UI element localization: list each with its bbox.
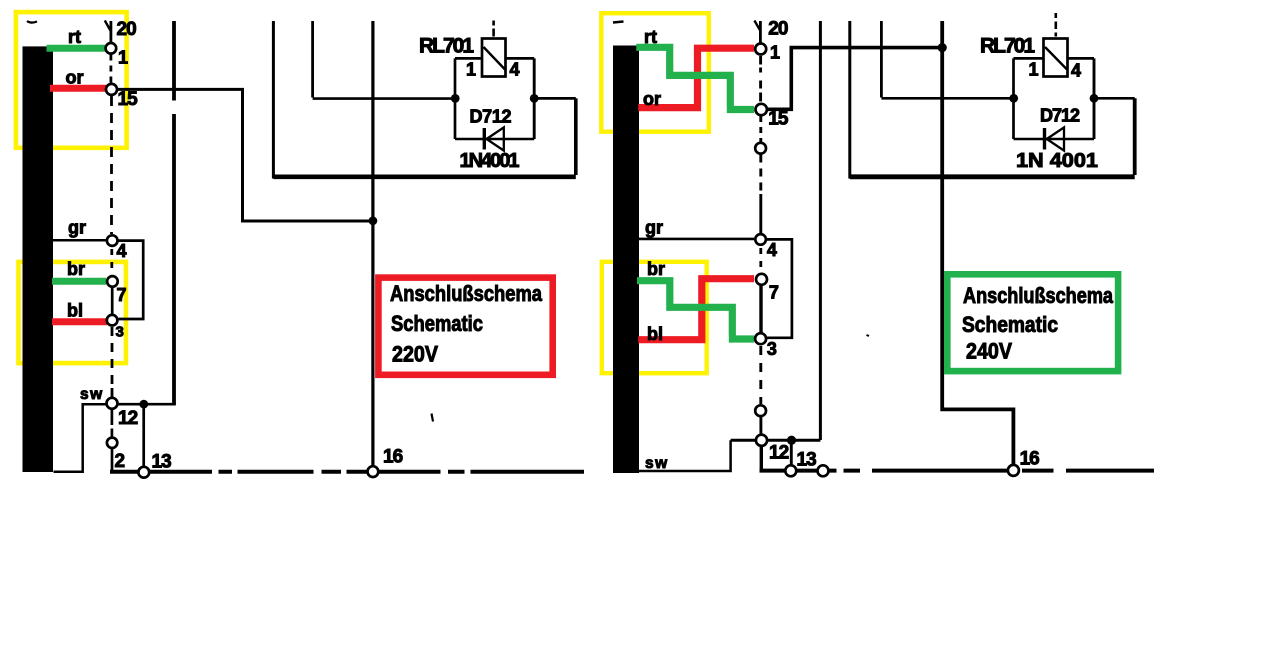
svg-text:16: 16 bbox=[383, 447, 403, 468]
svg-text:13: 13 bbox=[797, 450, 817, 471]
junction dot right of node12 bbox=[139, 400, 148, 409]
relay dashed stub above (right) bbox=[1055, 13, 1058, 37]
wire node12 down to node2 bbox=[111, 410, 114, 438]
junction dot right of node12 (right) bbox=[787, 436, 796, 445]
junction dot on vertical bus bbox=[369, 216, 378, 225]
wire node2 down to bus bbox=[111, 449, 114, 472]
svg-text:gr: gr bbox=[645, 218, 663, 238]
relay left leg (right) bbox=[1012, 58, 1015, 139]
wire: vertical from top x881 bbox=[880, 21, 883, 98]
relay right leg bbox=[533, 58, 536, 139]
bottom bus dashed line (left half) bbox=[110, 470, 584, 474]
extra terminal circle on bus bbox=[818, 465, 829, 476]
svg-text:1: 1 bbox=[118, 48, 128, 68]
relay bottom rail through diode bbox=[455, 138, 534, 140]
wire from node15 up and right to junction bbox=[767, 48, 942, 110]
red crossover wire or->1 bbox=[638, 48, 754, 107]
svg-text:or: or bbox=[66, 68, 84, 88]
svg-text:1N4001: 1N4001 bbox=[460, 150, 520, 172]
wire node12 down to bus bbox=[760, 446, 763, 470]
svg-text:Anschlußschema: Anschlußschema bbox=[963, 283, 1114, 308]
node 4 bbox=[107, 235, 118, 246]
svg-text:4: 4 bbox=[1071, 61, 1081, 81]
green wire rt bbox=[47, 45, 107, 52]
dashed vertical circle to node4 bbox=[759, 155, 762, 197]
svg-text:D712: D712 bbox=[470, 107, 512, 127]
svg-text:7: 7 bbox=[117, 285, 127, 305]
node 16 (right) bbox=[1008, 465, 1019, 476]
svg-text:1N 4001: 1N 4001 bbox=[1016, 150, 1098, 172]
diode D712 cathode bar (right) bbox=[1043, 128, 1046, 150]
wire relay right dot to x576 bbox=[534, 97, 576, 100]
node 13 (right) bbox=[785, 465, 796, 476]
svg-text:rt: rt bbox=[644, 27, 657, 47]
wire: vertical from top x820 bbox=[819, 21, 822, 440]
wire relay right dot to x1135 bbox=[1094, 97, 1135, 100]
diode D712 cathode bar bbox=[483, 128, 486, 150]
sw wire from bar bbox=[54, 404, 106, 472]
gr wire bbox=[53, 239, 106, 242]
thick return wire y177 (right) bbox=[850, 174, 1135, 179]
junction dot on vertical x941 bbox=[938, 43, 947, 52]
svg-text:1: 1 bbox=[770, 43, 780, 63]
svg-text:4: 4 bbox=[117, 241, 127, 261]
relay left leg bbox=[454, 58, 457, 139]
node 1 (right) bbox=[755, 44, 766, 55]
scan tick (top-left of right yellow box) bbox=[613, 22, 624, 23]
wire: relay feed y98.6 bbox=[313, 97, 455, 100]
thick return wire y177 bbox=[273, 175, 575, 180]
wire: vertical from top x941 then jog to node16 bbox=[942, 21, 1013, 466]
relay dashed stub above bbox=[492, 21, 495, 37]
relay top rails bbox=[455, 57, 534, 60]
dashed vertical node3 to node12 bbox=[111, 327, 114, 390]
red wire or bbox=[50, 85, 106, 92]
svg-text:13: 13 bbox=[152, 452, 172, 473]
relay coil box (left) bbox=[482, 39, 506, 77]
svg-text:240V: 240V bbox=[966, 339, 1012, 364]
node 7 bbox=[107, 276, 118, 287]
wire into node12 bbox=[111, 388, 114, 397]
green crossover wire rt->15 bbox=[636, 47, 754, 109]
relay bottom rail through diode (right) bbox=[1014, 138, 1095, 140]
yellow highlight box (left connector rt/or) bbox=[16, 12, 127, 148]
junction dot relay left bbox=[451, 94, 460, 103]
bracket wire node4 to node3 bbox=[118, 241, 143, 319]
wire y440 through node12 to x820 bbox=[731, 439, 821, 442]
diode D712 triangle (right) bbox=[1047, 127, 1064, 150]
svg-text:220V: 220V bbox=[392, 342, 438, 367]
node 16 bbox=[368, 466, 379, 477]
green schematic label box 240V bbox=[947, 274, 1118, 371]
svg-text:sw: sw bbox=[645, 455, 669, 472]
node 3 bbox=[107, 315, 118, 326]
sw wire from bar (right) bbox=[639, 440, 731, 471]
svg-text:rt: rt bbox=[68, 27, 81, 47]
wire: vertical from top x174 bbox=[172, 21, 176, 405]
svg-text:1: 1 bbox=[466, 60, 476, 80]
junction dot relay right bbox=[530, 94, 539, 103]
bottom bus dashed line (right half) bbox=[760, 469, 1155, 473]
node 15 (right) bbox=[756, 104, 767, 115]
yellow highlight box (left connector br/bl) bbox=[19, 262, 126, 363]
svg-text:16: 16 bbox=[1020, 449, 1040, 470]
yellow highlight box (right connector br/bl) bbox=[602, 262, 707, 373]
node 1 bbox=[106, 43, 117, 54]
junction dot relay left (right) bbox=[1009, 94, 1018, 103]
relay coil diagonal bbox=[484, 47, 506, 70]
wire: vertical from top x313 bbox=[311, 21, 314, 98]
svg-text:12: 12 bbox=[118, 408, 138, 429]
svg-text:15: 15 bbox=[768, 109, 789, 130]
svg-text:3: 3 bbox=[767, 339, 777, 359]
dashed vertical node3 down bbox=[759, 346, 762, 404]
svg-text:D712: D712 bbox=[1040, 106, 1080, 126]
wire: dashed link node1-node15 (right) bbox=[759, 56, 762, 102]
svg-text:or: or bbox=[643, 89, 661, 109]
wire: dashed link node1-node15 bbox=[110, 55, 113, 84]
svg-text:br: br bbox=[67, 259, 85, 279]
wire node7-node3 bbox=[111, 288, 114, 314]
svg-text:Anschlußschema: Anschlußschema bbox=[390, 281, 543, 306]
connector bar (left, black) bbox=[23, 46, 54, 472]
svg-text:12: 12 bbox=[769, 443, 789, 464]
svg-text:bl: bl bbox=[647, 324, 663, 344]
node 12 (right) bbox=[756, 435, 767, 446]
node 15 bbox=[106, 84, 117, 95]
bracket wire node4 to node3 (right) bbox=[767, 239, 792, 337]
connector bar (right, black) bbox=[613, 46, 639, 474]
dash between node4 and node7 bbox=[110, 249, 113, 275]
relay coil box (right) bbox=[1044, 39, 1068, 77]
scan tick near x432 bbox=[432, 414, 434, 422]
mid circle above node12 (right) bbox=[755, 405, 766, 416]
wire node7-node3 (right) bbox=[759, 286, 762, 334]
wire into node4 bbox=[759, 194, 762, 234]
relay coil diagonal (right) bbox=[1045, 47, 1067, 70]
relay right leg (right) bbox=[1093, 58, 1096, 139]
node 4 (right) bbox=[755, 234, 766, 245]
relay top rails (right) bbox=[1014, 57, 1095, 60]
wire: vertical from top x273 bbox=[272, 21, 275, 179]
yellow highlight box (right connector rt/or) bbox=[601, 13, 709, 132]
svg-text:sw: sw bbox=[80, 386, 104, 403]
svg-text:2: 2 bbox=[115, 451, 126, 472]
wire: terminal 20 stub (right) bbox=[759, 21, 762, 43]
node 13 bbox=[138, 467, 149, 478]
svg-text:20: 20 bbox=[768, 19, 788, 40]
svg-text:Schematic: Schematic bbox=[391, 311, 483, 336]
svg-text:15: 15 bbox=[118, 89, 139, 110]
wire junction down to node13 (right) bbox=[790, 445, 793, 466]
red crossover wire bl->7 bbox=[638, 279, 754, 340]
svg-text:br: br bbox=[647, 259, 665, 279]
dash between node4 and node7 (right) bbox=[759, 248, 762, 274]
wire: stub fork tick (right) bbox=[754, 21, 760, 32]
svg-text:bl: bl bbox=[67, 301, 83, 321]
svg-text:4: 4 bbox=[510, 60, 520, 80]
node 12 bbox=[107, 398, 118, 409]
red wire bl bbox=[52, 318, 107, 325]
svg-text:3: 3 bbox=[116, 324, 124, 341]
wire: vertical from top x850 bbox=[848, 21, 851, 179]
svg-text:4: 4 bbox=[767, 240, 777, 260]
dashed vertical node15 to mid circle bbox=[759, 116, 762, 142]
wire: dashed vertical node15 to node4 bbox=[110, 96, 113, 234]
svg-text:Schematic: Schematic bbox=[962, 312, 1058, 337]
red schematic label box 220V bbox=[378, 278, 552, 375]
diode D712 triangle bbox=[487, 127, 504, 150]
svg-text:gr: gr bbox=[68, 218, 86, 238]
junction dot relay right (right) bbox=[1090, 94, 1099, 103]
node 3 (right) bbox=[755, 333, 766, 344]
wire: vertical from top x373 to node16 bbox=[371, 21, 374, 467]
green crossover wire br->3 bbox=[637, 281, 754, 339]
wire vertical x1135 bbox=[1133, 98, 1137, 175]
svg-text:7: 7 bbox=[769, 283, 779, 303]
wire from node15 right then down then right bbox=[117, 89, 371, 221]
wire: terminal 20 stub bbox=[110, 21, 113, 43]
wire junction down to node13 bbox=[142, 409, 145, 468]
wire circle to node12 bbox=[759, 417, 762, 436]
node 2 circle bbox=[107, 438, 117, 448]
wire vertical x576 bbox=[574, 98, 578, 175]
node 7 (right) bbox=[756, 274, 767, 285]
wire: relay feed y98.3 (right) bbox=[881, 97, 1013, 100]
gr wire (right) bbox=[639, 238, 754, 241]
svg-text:RL701: RL701 bbox=[419, 35, 474, 58]
svg-text:1: 1 bbox=[1029, 60, 1039, 80]
svg-text:20: 20 bbox=[117, 19, 137, 40]
mid circle on vertical (right) bbox=[755, 143, 766, 154]
wire: stub fork tick bbox=[105, 21, 111, 32]
scan tick (top-left of yellow box) bbox=[27, 21, 37, 23]
wire node12 to vertical x174 bbox=[118, 403, 176, 406]
svg-text:RL701: RL701 bbox=[980, 35, 1035, 58]
green wire br bbox=[52, 278, 106, 285]
scan speck left of green box bbox=[867, 335, 870, 336]
